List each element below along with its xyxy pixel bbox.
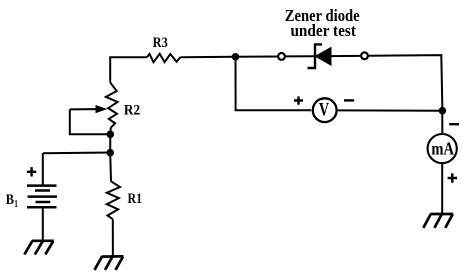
wire R1 to ground [112,219,114,256]
potentiometer R2 (vertical zigzag) [106,83,118,128]
junction dot battery node [106,149,114,157]
plus sign voltmeter [294,96,303,104]
svg-text:R2: R2 [124,103,140,119]
ground (R1) [95,256,124,270]
wire terminal to zener cathode [286,55,314,57]
zener diode under test: cathode bar with bent ends [308,44,323,68]
svg-text:mA: mA [431,138,454,158]
voltmeter V [313,98,337,122]
svg-text:R3: R3 [153,35,168,51]
plus sign battery [27,167,36,176]
milliammeter mA [428,134,457,163]
node A junction dot [232,53,240,61]
ground (milliammeter) [423,214,453,228]
wire right terminal to top-right corner down to node B [369,55,443,111]
ground (battery) [24,241,53,255]
wire zener anode to right test terminal [331,55,360,57]
wire node A down to voltmeter branch [236,57,312,111]
wire battery to node [43,152,110,155]
resistor R3 [147,54,181,62]
svg-text:V: V [319,100,329,121]
wire wiper loop to bottom of R2 [70,109,111,134]
wire top-left corner from R2 top to R3 [110,57,147,82]
wire battery node down to R1 [109,153,112,182]
wire voltmeter to node B [338,109,443,111]
node B junction dot [439,107,447,115]
wire R3 to node A [181,56,236,59]
zener diode anode triangle [316,48,332,66]
wire node B to milliammeter [441,111,443,135]
plus sign milliammeter [448,173,457,182]
terminal right (open circle) [361,52,368,59]
minus sign milliammeter [449,123,459,125]
wire R2 bottom lead [109,128,111,135]
minus sign voltmeter [344,99,354,101]
wiper arrow of R2 [70,108,97,110]
svg-text:B: B [6,192,14,208]
battery B1 [27,153,57,241]
terminal left (open circle) [278,53,285,60]
svg-text:1: 1 [14,199,17,210]
svg-text:under test: under test [290,21,356,40]
wire milliammeter to ground [441,164,443,214]
resistor R1 [107,181,120,219]
junction dot R2 bottom [107,131,115,139]
svg-text:R1: R1 [128,191,143,207]
wire R2 bottom to battery node [109,134,111,152]
wire node A to left test terminal [236,56,278,58]
